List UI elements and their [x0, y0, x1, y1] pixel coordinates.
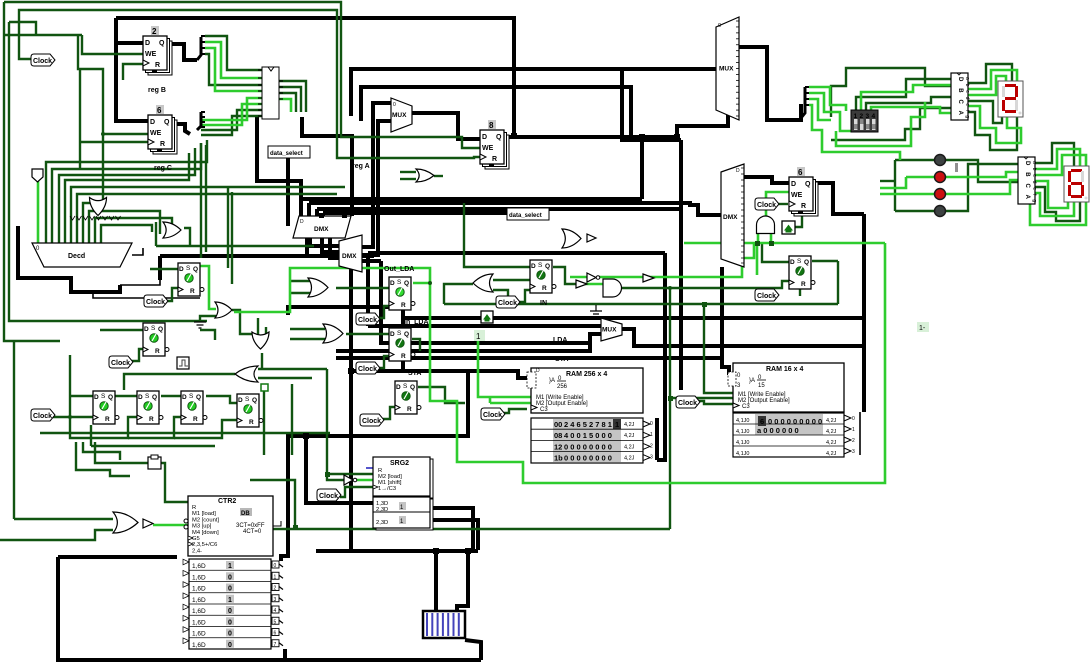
wire ff3 D in [70, 395, 93, 397]
7-segment decoder DEC1 [951, 73, 970, 120]
svg-text:0: 0 [228, 586, 232, 593]
wire jumper to bottom bus [465, 640, 481, 660]
svg-text:M2 [count]: M2 [count] [192, 517, 219, 523]
wire seg2 d [1035, 187, 1080, 221]
wire DMX U3 out to DMX U7 b [322, 238, 339, 252]
wire reg C Q to splitter [172, 124, 190, 134]
svg-text:6: 6 [274, 631, 277, 637]
wire long vertical x681 [679, 140, 683, 390]
wire led2 bright [906, 172, 1018, 177]
wire bright y243 [684, 242, 885, 245]
svg-text:In_LDA: In_LDA [404, 319, 429, 326]
wire RAM256 out bus [655, 418, 659, 460]
wire LDA drop [366, 253, 370, 326]
svg-text:Q: Q [496, 134, 502, 141]
svg-text:Clock: Clock [358, 366, 377, 373]
wire ff U20 Q [812, 260, 838, 262]
svg-text:2,4-: 2,4- [192, 548, 202, 554]
splitter S3 [801, 87, 809, 118]
wire reg A Q bus [504, 135, 677, 139]
flip-flop U11 [143, 323, 169, 356]
wire green loop a [83, 442, 120, 460]
svg-text:Clock: Clock [757, 202, 776, 209]
or gate G5 [235, 366, 258, 382]
svg-text:STA: STA [408, 370, 421, 377]
or gate G3 [215, 302, 232, 318]
wire or G9 in 2 [400, 178, 416, 180]
wire seg2 e [1035, 181, 1068, 208]
wire splitter to dip 4 [809, 105, 900, 160]
wire to SRG2 input [306, 436, 373, 503]
svg-text:4,2J: 4,2J [624, 422, 635, 428]
svg-text:6: 6 [157, 106, 162, 115]
svg-text:00: 00 [554, 420, 562, 429]
flip-flop U14 [181, 391, 207, 424]
LED D1 [935, 155, 946, 166]
wire DMX U7 to MUX U4 in2 [362, 121, 391, 255]
wire or G5 in 1 [258, 368, 327, 370]
wire long vert a [200, 143, 202, 258]
wire relay to CTR2 [160, 463, 188, 502]
wire seg f bright [968, 106, 1021, 143]
wire led2 feed [880, 177, 906, 188]
flip-flop STA U18 [395, 381, 421, 414]
svg-text:D: D [145, 40, 150, 47]
svg-text:R: R [407, 406, 412, 413]
clock input Clock3 [109, 356, 133, 368]
svg-text:R: R [155, 348, 160, 355]
wire DMX U6 bottom down [720, 267, 724, 358]
svg-text:0: 0 [393, 102, 396, 108]
flip-flop Out_LDA U16 [389, 277, 415, 310]
svg-text:1,6D: 1,6D [192, 574, 206, 581]
wire reg 6 Q bus [812, 183, 864, 214]
multiplexer MUX U5 [716, 17, 739, 120]
svg-text:7: 7 [274, 642, 277, 648]
wire bright down from and G15 [756, 243, 759, 275]
wire ff U20 Q loop right [837, 261, 839, 304]
wire block fold 1 [279, 81, 306, 112]
svg-text:Clock: Clock [483, 412, 502, 419]
wire DMX U3 stair drop 3 [315, 209, 319, 216]
wire block fold 2 [279, 87, 301, 112]
svg-text:D: D [138, 394, 143, 401]
svg-text:R: R [160, 141, 165, 148]
splitter S2 [197, 112, 205, 130]
wire and G15 in a [757, 232, 760, 243]
wire decoder net 5 [71, 187, 345, 243]
svg-text:D: D [482, 134, 487, 141]
wire DMX U3 stair drop 2 [307, 203, 311, 216]
RAM 256x4 U21 [527, 368, 653, 463]
register reg A flip-flop U3 [480, 120, 509, 169]
svg-text:WE: WE [791, 192, 803, 199]
wire clock to ff2 [131, 349, 143, 361]
splitter block S6 [258, 67, 283, 119]
or gate G4 [252, 332, 269, 349]
wire buffer G13 to CTR2 [153, 524, 188, 527]
7-segment decoder DEC2 [1018, 157, 1037, 204]
demultiplexer DMX U3 [293, 216, 351, 238]
svg-text:Q: Q [193, 266, 198, 273]
wire bus y199 [301, 197, 642, 201]
svg-text:Q: Q [164, 119, 170, 126]
wire or to or [232, 310, 252, 334]
svg-text:D: D [736, 168, 740, 174]
flip-flop In_LDA U17 [389, 328, 415, 361]
svg-text:D: D [182, 394, 187, 401]
buffer G16 [576, 280, 587, 288]
svg-text:0: 0 [228, 631, 232, 638]
wire bus top [116, 18, 514, 136]
svg-text:}A: }A [549, 378, 555, 384]
flip-flop U12 [93, 391, 119, 424]
svg-text:a 0 0 0 0 0 0: a 0 0 0 0 0 0 [757, 426, 799, 435]
svg-text:R: R [192, 505, 196, 511]
wire bus y318 left drop [401, 307, 405, 371]
svg-text:0: 0 [852, 416, 855, 422]
shift register SRG2 U24 [373, 457, 433, 530]
svg-text:data_select: data_select [270, 151, 303, 157]
flip-flop U10 [178, 263, 204, 296]
svg-text:Q: Q [252, 397, 257, 404]
svg-text:data_select: data_select [509, 213, 542, 219]
svg-text:0: 0 [228, 642, 232, 649]
or gate G8 [473, 274, 493, 292]
svg-text:1,6D: 1,6D [192, 597, 206, 604]
svg-text:1→/C3: 1→/C3 [378, 486, 396, 492]
svg-text:D: D [94, 394, 99, 401]
or gate G9 [416, 169, 434, 182]
svg-text:D: D [396, 384, 401, 391]
wire regB fan 2 [205, 42, 262, 78]
wire regB fan 1 [205, 36, 262, 70]
svg-text:WE: WE [145, 51, 157, 58]
svg-text:D: D [150, 119, 155, 126]
wire RAM address in [468, 371, 527, 378]
or gate G6 [308, 278, 328, 297]
wire sq down [263, 391, 265, 455]
wire bus y307 [288, 307, 403, 315]
wire clock to reg6 clk [777, 203, 788, 205]
svg-text:G5: G5 [192, 536, 200, 542]
wire data_select 1 pin [286, 158, 290, 226]
svg-text:4,2J: 4,2J [826, 440, 837, 446]
wire clk chain 2 [128, 417, 183, 438]
svg-text:Clock: Clock [146, 299, 165, 306]
svg-text:Q: Q [404, 280, 409, 287]
wire clock to RAM16 C3 [694, 401, 733, 404]
wire long vert c [227, 188, 229, 268]
and gate G15 [757, 216, 775, 234]
wire decoder net 8 [89, 211, 160, 243]
wire clock to RAM256 C3 [502, 409, 527, 413]
wire seg2 f [1035, 193, 1074, 216]
wire rail y35 [4, 34, 82, 36]
green junction dots [293, 241, 774, 530]
probe marker [955, 163, 958, 172]
wire DMX U3 out to DMX U7 c [330, 238, 339, 258]
svg-text:5: 5 [274, 619, 277, 625]
wire led3 bright [880, 180, 1018, 194]
wire to inverter G18 [327, 474, 344, 480]
net label data_select 2 [507, 208, 549, 220]
wire RAM16 pin col [859, 412, 861, 455]
svg-text:1: 1 [228, 563, 232, 570]
svg-text:D: D [300, 219, 304, 225]
svg-text:}A: }A [749, 378, 755, 384]
svg-text:3: 3 [274, 597, 277, 603]
svg-text:R: R [542, 285, 547, 292]
wire decoder area stub [120, 278, 160, 285]
wire STA Q [418, 387, 465, 403]
wire regB fan 4 [205, 54, 262, 85]
wire led feed [880, 180, 895, 182]
wire DMX U3 out to DMX U7 a [310, 238, 339, 246]
wire RAM M2 jog [489, 397, 492, 403]
svg-text:Clock: Clock [498, 300, 517, 307]
svg-text:1,6D: 1,6D [192, 586, 206, 593]
svg-text:D: D [791, 181, 796, 188]
wire clock to In_LDA clk [379, 356, 390, 368]
wire clock to SRG2 C3 [340, 487, 373, 497]
wire bus y318 [403, 307, 864, 318]
wire long vert d [231, 192, 233, 284]
wire to ff2 D [100, 329, 143, 331]
wire bottom frame top [58, 555, 177, 559]
svg-text:3: 3 [650, 455, 653, 461]
wire y551 up [349, 540, 353, 551]
svg-text:D: D [144, 326, 149, 333]
svg-text:2 4 6 5 2 7 8 1: 2 4 6 5 2 7 8 1 [564, 420, 612, 429]
svg-text:S: S [189, 393, 194, 400]
wire or G4 out [261, 353, 263, 369]
wire led left rail [894, 160, 896, 211]
wire bus y256 [160, 254, 374, 258]
wire decoder net 7 [83, 203, 103, 243]
wire y446 up [90, 425, 92, 446]
svg-text:0: 0 [274, 563, 277, 569]
ground symbol [590, 305, 602, 317]
LED D3 [935, 189, 946, 200]
wire or G7 in 1 [290, 328, 325, 330]
wire decoder net 9 [95, 218, 172, 243]
wire buffer G16 to and G14 [585, 283, 603, 286]
svg-text:S: S [397, 330, 402, 337]
svg-text:S: S [397, 279, 402, 286]
svg-text:Clock: Clock [33, 413, 52, 420]
multiplexer MUX U8 [601, 318, 622, 341]
wire STA bus a [336, 343, 590, 351]
svg-text:Clock: Clock [33, 58, 52, 65]
svg-text:4,2J: 4,2J [624, 456, 635, 462]
svg-text:Clock: Clock [111, 360, 130, 367]
wire bus to MUX U8 b [381, 261, 601, 343]
wire STA bus to RAM16 address [336, 358, 729, 375]
pull component [261, 384, 268, 391]
svg-text:4 0 0 1 5 0 0 0: 4 0 0 1 5 0 0 0 [564, 431, 612, 440]
svg-text:1: 1 [228, 597, 232, 604]
svg-text:2: 2 [650, 443, 653, 449]
clock input Clock9 [481, 408, 505, 420]
svg-text:4,1J0: 4,1J0 [736, 451, 749, 457]
constant 1 green b [917, 322, 929, 332]
wire reg A Q branch down [640, 137, 644, 199]
svg-text:D: D [531, 263, 536, 270]
svg-text:MUX: MUX [392, 112, 407, 119]
svg-text:0: 0 [650, 421, 653, 427]
wire dip loop 1 [831, 68, 951, 117]
svg-text:D: D [790, 259, 795, 266]
svg-text:MUX: MUX [602, 327, 617, 334]
wire or G5 in 2 [258, 377, 312, 379]
wire clk chain 1 [70, 417, 137, 438]
svg-text:Q: Q [108, 394, 113, 401]
svg-text:0 0 0 0 0 0 0 0: 0 0 0 0 0 0 0 0 [564, 454, 612, 463]
svg-text:R: R [105, 416, 110, 423]
wire clock to STA clk [383, 407, 396, 419]
svg-text:2,3D: 2,3D [376, 520, 388, 526]
svg-text:M4 [down]: M4 [down] [192, 530, 219, 536]
svg-text:MUX: MUX [719, 66, 734, 73]
svg-text:Q: Q [159, 40, 165, 47]
clock input Clock5 [356, 313, 380, 325]
wire decoder loop left [18, 226, 120, 292]
wire top rail to reg A WE [4, 2, 480, 148]
LED D4 [935, 206, 946, 217]
svg-text:1-: 1- [919, 325, 926, 332]
wire left rail 3 [13, 341, 15, 519]
svg-text:DMX: DMX [314, 226, 329, 233]
inverter G11b [587, 273, 600, 282]
svg-text:R: R [801, 281, 806, 288]
wire x292 down [291, 384, 293, 455]
ground symbol 2 [194, 322, 206, 328]
wire ff chain 1 [115, 395, 137, 397]
wire clock1 to reg A clk [19, 10, 480, 158]
svg-text:1: 1 [650, 432, 653, 438]
wire In_LDA Q [412, 339, 420, 351]
wire ff1 Q to or G3 [200, 266, 216, 309]
wire x70 vertical [69, 355, 71, 417]
wire long y446 [91, 445, 215, 447]
svg-text:3: 3 [866, 113, 870, 120]
wire to jumper left [434, 551, 438, 611]
svg-text:M3 [up]: M3 [up] [192, 524, 212, 530]
wire bus y256 drop [158, 256, 162, 280]
svg-text:4: 4 [274, 608, 277, 614]
wire decoder net 6 [77, 194, 337, 243]
svg-text:S: S [145, 393, 150, 400]
flip-flop U20 [789, 256, 815, 289]
wire dip loop bright [836, 102, 925, 146]
clock input Clock4 [31, 409, 55, 421]
wire ground to or G3 [200, 316, 216, 322]
svg-text:Q: Q [158, 326, 163, 333]
svg-text:3: 3 [852, 449, 855, 455]
wire splitter to dip 1 [809, 87, 846, 111]
svg-text:0: 0 [228, 619, 232, 626]
wire clock to Out_LDA clk [379, 306, 390, 318]
wire seg b [968, 70, 1017, 89]
svg-text:R: R [193, 416, 198, 423]
wire reg6 R to house [795, 210, 802, 227]
svg-text:Q: Q [805, 181, 811, 188]
clock input Clock6 [356, 362, 380, 374]
svg-text:8: 8 [489, 121, 494, 130]
svg-text:R: R [801, 203, 806, 210]
svg-text:D: D [179, 266, 184, 273]
svg-text:1,6D: 1,6D [192, 642, 206, 649]
wire bus y209 [317, 207, 680, 211]
svg-text:C3: C3 [540, 407, 548, 413]
svg-text:DMX: DMX [723, 214, 738, 221]
wire led4 in [895, 210, 934, 212]
svg-text:WE: WE [150, 130, 162, 137]
decoder Decd [32, 243, 132, 267]
wire DMX U6 to reg 6 D [744, 177, 789, 183]
svg-text:08: 08 [554, 431, 562, 440]
wire to jumper right [457, 551, 468, 611]
svg-text:R: R [401, 353, 406, 360]
wire bus left vertical to reg C D [116, 18, 148, 121]
svg-text:1b: 1b [554, 454, 563, 463]
wire DMX U7 to MUX U4 in1 [362, 103, 391, 247]
svg-text:4,2J: 4,2J [826, 429, 837, 435]
svg-text:1,6D: 1,6D [192, 631, 206, 638]
clock input Clock10 [676, 396, 700, 408]
svg-text:Clock: Clock [358, 317, 377, 324]
wire or G2 out [184, 228, 190, 246]
wire pin to decoder bright [37, 181, 40, 243]
wire MUX U8 output [620, 329, 864, 346]
wire Out_LDA Q to loop [413, 282, 430, 285]
wire ff2 Q [200, 330, 215, 340]
svg-text:Q: Q [410, 384, 415, 391]
7-segment display DISP2 showing 6 [1064, 166, 1089, 202]
buffer G11 [587, 234, 596, 242]
wire IN ff Q to buffer [553, 267, 576, 284]
wire seg2 a [1035, 143, 1074, 166]
svg-text:4,2J: 4,2J [624, 444, 635, 450]
clock input Clock8 [496, 296, 520, 308]
register output flip-flop U9 [789, 167, 818, 216]
svg-text:0: 0 [718, 23, 721, 29]
or gate G2 [163, 222, 181, 238]
svg-text:6: 6 [798, 168, 803, 177]
wire to or G12 b [0, 530, 113, 540]
svg-text:STA: STA [555, 356, 568, 363]
RAM 16x4 U22 [728, 363, 855, 457]
svg-text:1,6D: 1,6D [192, 608, 206, 615]
blue unknown stub [366, 467, 373, 469]
splitter S1 [197, 36, 205, 60]
buffer G17 [643, 274, 654, 282]
wire to ff U20 D [762, 243, 789, 262]
wire clock to IN ff clk [519, 290, 531, 302]
clock input Clock7 [360, 414, 384, 426]
bus junction dots [303, 133, 680, 554]
decoder select arrows [70, 216, 121, 220]
svg-text:1: 1 [854, 113, 858, 120]
wire left rail top [9, 22, 36, 35]
svg-text:reg C: reg C [154, 165, 172, 172]
svg-text:2,3D: 2,3D [376, 507, 388, 513]
wire seg c bright [968, 76, 1006, 95]
wire decoder to ff [93, 292, 200, 298]
counter CTR2 U23 [183, 496, 283, 649]
wire led1 in [895, 159, 934, 161]
